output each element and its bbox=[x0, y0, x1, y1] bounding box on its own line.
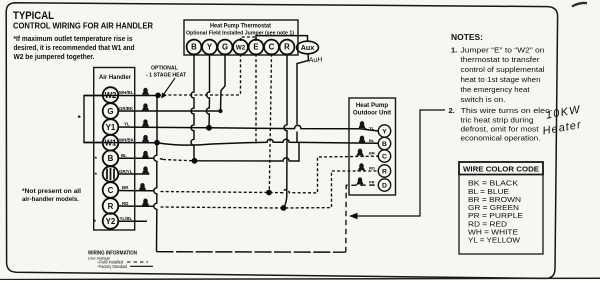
wire nut HP D bbox=[356, 177, 365, 185]
thermostat box bbox=[184, 20, 298, 55]
wire B row dashed part bbox=[163, 160, 194, 161]
margin strip below scan edge bbox=[0, 280, 600, 283]
air handler box bbox=[94, 68, 135, 231]
wire defrost riser to heat pump D bbox=[346, 185, 379, 252]
jumper W1-W2 bracket bbox=[84, 96, 103, 143]
junction dot C bbox=[266, 190, 272, 196]
wire nut HP B bbox=[358, 136, 367, 144]
terminal E (thermostat) bbox=[249, 40, 264, 55]
terminal Y2 (air handler) bbox=[103, 213, 119, 229]
terminal Y (heat pump) bbox=[378, 125, 390, 137]
svg-text:defrost, omit for most: defrost, omit for most bbox=[461, 124, 540, 133]
junction dot Y bbox=[206, 125, 212, 131]
terminal D (heat pump) bbox=[378, 179, 390, 191]
svg-text:B: B bbox=[108, 154, 114, 163]
wire W2 row bbox=[84, 95, 158, 97]
note 1 bbox=[451, 45, 545, 104]
svg-text:RD: RD bbox=[369, 166, 375, 171]
wire color code entries bbox=[468, 179, 523, 245]
junction dot B bbox=[192, 158, 198, 164]
svg-text:WH/BK: WH/BK bbox=[119, 138, 135, 143]
terminal R (thermostat) bbox=[280, 40, 295, 55]
terminal C (air handler) bbox=[103, 182, 119, 198]
wire nut G bbox=[141, 103, 150, 111]
svg-text:Air Handler: Air Handler bbox=[99, 74, 131, 81]
terminal Y1 (air handler) bbox=[103, 119, 119, 135]
wire nut HP Y bbox=[358, 121, 367, 129]
svg-text:W2 be jumpered together.: W2 be jumpered together. bbox=[14, 52, 95, 61]
wire nut W1 bbox=[141, 135, 150, 143]
wire Y1 row to heat pump Y bbox=[118, 125, 378, 131]
svg-text:C: C bbox=[382, 154, 387, 161]
terminal W2 (air handler) bbox=[103, 87, 119, 103]
terminal Aux bbox=[297, 41, 319, 54]
wire B row to riser bbox=[194, 143, 299, 161]
svg-text:*Not present on all: *Not present on all bbox=[22, 188, 81, 195]
svg-text:GR/YL: GR/YL bbox=[119, 169, 133, 174]
wire R drop (thermostat) bbox=[284, 54, 288, 208]
wire B row solid part bbox=[118, 157, 163, 160]
svg-text:YL/BL: YL/BL bbox=[120, 216, 133, 221]
wire nut HP R bbox=[357, 163, 366, 171]
svg-text:E: E bbox=[253, 43, 258, 52]
wire E to Aux bbox=[256, 36, 308, 42]
svg-text:B: B bbox=[191, 43, 197, 52]
note 2 bbox=[449, 106, 554, 142]
terminal B (thermostat) bbox=[187, 40, 202, 55]
wire nut O bbox=[141, 166, 150, 174]
svg-text:–Factory Standard: –Factory Standard bbox=[97, 264, 128, 269]
terminal Y (thermostat) bbox=[202, 40, 217, 55]
wire G drop (thermostat) bbox=[221, 54, 226, 111]
svg-text:W2: W2 bbox=[236, 44, 246, 51]
wire nut HP C bbox=[356, 149, 365, 157]
wire W1 row to heat pump B bbox=[84, 139, 378, 145]
wire Y drop (thermostat) bbox=[206, 54, 209, 128]
arrowhead note 2 bbox=[349, 213, 358, 219]
svg-text:tric heat strip during: tric heat strip during bbox=[461, 115, 534, 124]
svg-text:*: * bbox=[94, 219, 97, 226]
svg-text:G: G bbox=[222, 43, 228, 52]
wire jumper riser W2-W1 and defrost drop bbox=[154, 95, 157, 251]
callout line note 2 bbox=[352, 110, 445, 216]
svg-text:D: D bbox=[382, 183, 387, 190]
terminal G (thermostat) bbox=[218, 40, 233, 55]
wire nut C bbox=[138, 183, 147, 191]
svg-text:2.: 2. bbox=[449, 106, 455, 115]
svg-text:Outdoor Unit: Outdoor Unit bbox=[353, 110, 391, 117]
svg-text:AuH: AuH bbox=[308, 56, 324, 64]
svg-text:C: C bbox=[108, 186, 114, 195]
svg-text:B: B bbox=[382, 141, 387, 148]
terminal C (heat pump) bbox=[378, 150, 390, 162]
terminal G (air handler) bbox=[103, 103, 119, 119]
terminal C (thermostat) bbox=[264, 40, 279, 55]
wire nuts air handler column bbox=[138, 88, 150, 206]
svg-text:R: R bbox=[382, 169, 387, 176]
svg-text:WH/BL: WH/BL bbox=[119, 90, 134, 95]
heat pump outdoor unit box bbox=[349, 98, 396, 195]
wire C row dashed to heat pump C bbox=[161, 156, 379, 193]
svg-text:This wire turns on elec-: This wire turns on elec- bbox=[461, 106, 554, 115]
wire nuts heat pump column bbox=[356, 121, 367, 185]
terminal R (air handler) bbox=[103, 198, 119, 214]
svg-text:1.: 1. bbox=[451, 45, 457, 54]
wire nut W2 bbox=[141, 88, 150, 96]
wire B drop (thermostat) bbox=[191, 54, 194, 161]
wire nut Y1 bbox=[141, 119, 150, 127]
legend dashed sample bbox=[127, 261, 148, 263]
svg-text:YL = YELLOW: YL = YELLOW bbox=[468, 236, 520, 245]
terminal B (heat pump) bbox=[378, 137, 390, 149]
legend solid sample bbox=[130, 265, 153, 267]
svg-text:BR: BR bbox=[122, 185, 129, 190]
junction dot W1 bbox=[154, 140, 160, 146]
svg-text:heat to 1st stage when: heat to 1st stage when bbox=[461, 75, 541, 84]
svg-text:G: G bbox=[107, 107, 113, 116]
svg-text:NOTES:: NOTES: bbox=[451, 33, 483, 42]
svg-text:air-handler models.: air-handler models. bbox=[22, 196, 79, 203]
wire R row dashed to heat pump R bbox=[161, 171, 379, 208]
wire E drop dashed (thermostat) bbox=[255, 54, 257, 142]
wire defrost bottom run bbox=[157, 251, 346, 254]
wire G row bbox=[118, 110, 221, 112]
wire W2 row dashed extension to thermostat W2 bbox=[158, 94, 241, 96]
svg-text:WIRE COLOR CODE: WIRE COLOR CODE bbox=[463, 165, 539, 174]
svg-text:the emergency heat: the emergency heat bbox=[461, 85, 531, 94]
svg-text:BR: BR bbox=[369, 151, 375, 156]
wire W2 drop dashed (thermostat) bbox=[240, 54, 242, 95]
svg-text:Y: Y bbox=[382, 129, 387, 136]
svg-text:RD: RD bbox=[122, 201, 128, 206]
svg-text:OPTIONAL: OPTIONAL bbox=[151, 66, 179, 72]
svg-text:thermostat to transfer: thermostat to transfer bbox=[461, 55, 541, 64]
svg-text:desired, it is recommended tha: desired, it is recommended that W1 and bbox=[14, 43, 135, 52]
svg-text:*: * bbox=[78, 113, 82, 123]
svg-text:R: R bbox=[108, 202, 114, 211]
wire color code box bbox=[459, 162, 543, 254]
svg-text:YL: YL bbox=[124, 122, 130, 127]
svg-text:C: C bbox=[269, 43, 275, 52]
svg-text:- 1 STAGE HEAT: - 1 STAGE HEAT bbox=[146, 73, 187, 79]
svg-text:CONTROL WIRING FOR AIR HANDLER: CONTROL WIRING FOR AIR HANDLER bbox=[13, 21, 153, 31]
svg-text:Heat Pump Thermostat: Heat Pump Thermostat bbox=[210, 23, 272, 30]
terminal B (air handler) bbox=[103, 150, 119, 166]
junction dot R bbox=[281, 205, 287, 211]
svg-text:*: * bbox=[95, 156, 98, 163]
svg-text:*If maximum outlet temperature: *If maximum outlet temperature rise is bbox=[14, 34, 133, 43]
svg-text:economical operation.: economical operation. bbox=[461, 134, 541, 143]
svg-text:*: * bbox=[95, 172, 98, 179]
svg-text:Y2: Y2 bbox=[106, 217, 116, 226]
svg-text:BL: BL bbox=[121, 153, 127, 158]
svg-text:Aux: Aux bbox=[301, 43, 315, 52]
bottom scan edge line bbox=[0, 278, 600, 279]
wire Aux drop bbox=[297, 54, 309, 143]
wire C drop dashed (thermostat) bbox=[269, 54, 271, 193]
wire color code title box bbox=[459, 162, 543, 175]
wire O stub bbox=[118, 173, 149, 175]
svg-text:R: R bbox=[284, 43, 290, 52]
svg-text:Jumper “E” to “W2” on: Jumper “E” to “W2” on bbox=[461, 45, 545, 54]
wire C row bbox=[118, 190, 154, 192]
wire Y2 stub bbox=[119, 220, 147, 222]
terminal R (heat pump) bbox=[378, 165, 390, 177]
svg-text:control of supplemental: control of supplemental bbox=[461, 65, 545, 74]
jumper W2-E dashed bracket bbox=[241, 37, 257, 41]
svg-text:switch is on.: switch is on. bbox=[461, 95, 506, 104]
svg-text:Heat Pump: Heat Pump bbox=[356, 102, 389, 109]
svg-text:PR: PR bbox=[369, 180, 375, 185]
wire nut R bbox=[141, 199, 150, 207]
junction G drop bbox=[218, 109, 222, 113]
svg-text:Y1: Y1 bbox=[106, 123, 116, 132]
junction dot W2 bbox=[155, 93, 161, 99]
wire R row bbox=[118, 205, 154, 207]
svg-text:Y: Y bbox=[207, 43, 213, 52]
arrow optional to W2 junction bbox=[163, 78, 176, 96]
wire nut B bbox=[141, 151, 150, 159]
svg-text:BL: BL bbox=[369, 138, 375, 143]
svg-text:Heater: Heater bbox=[542, 119, 583, 138]
handwritten 10KW Heater bbox=[539, 104, 585, 138]
terminal O (air handler, hatched) bbox=[103, 166, 119, 182]
terminal W1 (air handler) bbox=[103, 135, 119, 151]
terminal W2 (thermostat) bbox=[233, 40, 248, 55]
pen mark top right bbox=[572, 3, 587, 7]
